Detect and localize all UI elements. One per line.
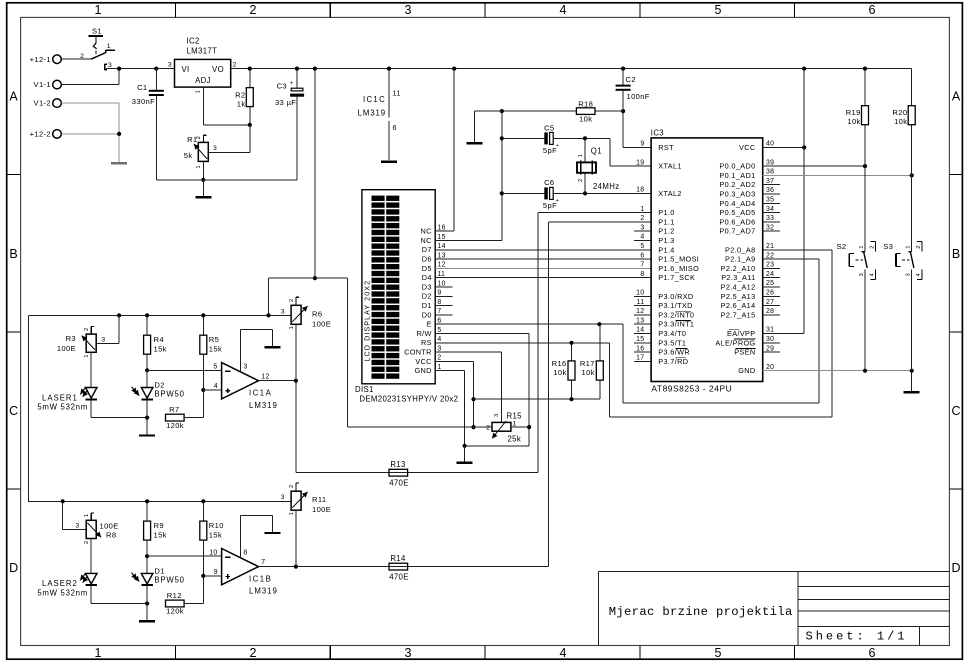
- svg-text:1: 1: [513, 421, 517, 428]
- svg-text:P2.6_A14: P2.6_A14: [721, 301, 756, 310]
- svg-text:GND: GND: [415, 366, 432, 375]
- svg-text:ALE/PROG: ALE/PROG: [715, 338, 755, 347]
- svg-text:32: 32: [766, 224, 774, 231]
- svg-text:E: E: [427, 320, 432, 329]
- svg-text:1: 1: [84, 355, 90, 358]
- svg-text:18: 18: [636, 187, 644, 194]
- svg-text:330nF: 330nF: [132, 97, 155, 106]
- svg-text:10k: 10k: [847, 117, 860, 126]
- svg-text:R2: R2: [235, 91, 245, 100]
- svg-text:LASER1: LASER1: [42, 393, 78, 402]
- svg-text:120k: 120k: [166, 607, 184, 616]
- svg-text:D4: D4: [422, 273, 432, 282]
- svg-text:GND: GND: [738, 366, 755, 375]
- svg-text:34: 34: [766, 206, 774, 213]
- svg-text:39: 39: [766, 159, 774, 166]
- svg-text:RST: RST: [658, 143, 674, 152]
- svg-text:25k: 25k: [508, 435, 522, 444]
- svg-text:7: 7: [261, 559, 265, 566]
- svg-text:P3.5/T1: P3.5/T1: [658, 338, 686, 347]
- svg-text:A: A: [952, 90, 961, 104]
- svg-text:C5: C5: [544, 123, 554, 132]
- svg-text:P1.0: P1.0: [658, 208, 674, 217]
- svg-text:2: 2: [289, 299, 295, 302]
- svg-text:VO: VO: [212, 65, 224, 74]
- svg-text:D1: D1: [422, 301, 432, 310]
- svg-text:15: 15: [437, 234, 445, 241]
- svg-text:EA/VPP: EA/VPP: [727, 329, 755, 338]
- svg-text:LM317T: LM317T: [187, 47, 218, 56]
- svg-text:R17: R17: [580, 359, 595, 368]
- svg-text:35: 35: [766, 197, 774, 204]
- svg-text:BPW50: BPW50: [154, 575, 184, 584]
- svg-text:R5: R5: [209, 335, 219, 344]
- svg-text:2: 2: [289, 485, 295, 488]
- svg-text:P2.0_A8: P2.0_A8: [725, 245, 755, 254]
- svg-text:P0.5_AD5: P0.5_AD5: [719, 208, 755, 217]
- svg-text:P0.3_AD3: P0.3_AD3: [719, 190, 755, 199]
- svg-text:15k: 15k: [154, 344, 167, 353]
- svg-text:IC2: IC2: [187, 37, 200, 46]
- svg-text:3: 3: [405, 3, 412, 17]
- svg-text:IC3: IC3: [651, 129, 664, 138]
- svg-text:15k: 15k: [209, 530, 222, 539]
- svg-text:P1.1: P1.1: [658, 217, 674, 226]
- svg-text:9: 9: [437, 290, 441, 297]
- svg-text:3: 3: [243, 364, 247, 371]
- svg-text:+12-1: +12-1: [30, 55, 51, 64]
- svg-text:Mjerac brzine projektila: Mjerac brzine projektila: [609, 605, 793, 619]
- svg-text:4: 4: [560, 3, 567, 17]
- svg-text:5: 5: [640, 243, 644, 250]
- svg-text:26: 26: [766, 290, 774, 297]
- svg-text:19: 19: [636, 159, 644, 166]
- svg-text:R6: R6: [312, 309, 322, 318]
- svg-text:XTAL2: XTAL2: [658, 189, 682, 198]
- svg-text:9: 9: [640, 141, 644, 148]
- svg-text:S3: S3: [883, 242, 893, 251]
- svg-text:3: 3: [859, 273, 865, 276]
- svg-text:1: 1: [195, 90, 201, 93]
- svg-text:31: 31: [766, 327, 774, 334]
- svg-text:R10: R10: [209, 521, 224, 530]
- svg-text:23: 23: [766, 262, 774, 269]
- svg-text:6: 6: [640, 252, 644, 259]
- svg-text:12: 12: [636, 308, 644, 315]
- svg-text:CONTR: CONTR: [404, 348, 432, 357]
- svg-text:10k: 10k: [894, 117, 907, 126]
- svg-text:2: 2: [84, 328, 90, 331]
- svg-text:P2.4_A12: P2.4_A12: [721, 283, 756, 292]
- svg-text:+12-2: +12-2: [30, 130, 51, 139]
- svg-text:24: 24: [766, 271, 774, 278]
- svg-text:20: 20: [766, 364, 774, 371]
- svg-text:37: 37: [766, 178, 774, 185]
- svg-text:R15: R15: [507, 411, 523, 420]
- svg-text:P1.2: P1.2: [658, 227, 674, 236]
- svg-text:100E: 100E: [100, 522, 119, 531]
- svg-text:40: 40: [766, 141, 774, 148]
- svg-text:P0.4_AD4: P0.4_AD4: [719, 199, 755, 208]
- svg-text:1: 1: [196, 165, 202, 168]
- svg-text:1: 1: [578, 154, 584, 157]
- svg-text:1: 1: [95, 3, 102, 17]
- svg-text:P2.7_A15: P2.7_A15: [721, 310, 756, 319]
- svg-text:R16: R16: [552, 359, 567, 368]
- svg-text:12: 12: [261, 373, 269, 380]
- svg-text:10: 10: [636, 290, 644, 297]
- svg-text:14: 14: [437, 243, 445, 250]
- svg-text:B: B: [9, 247, 17, 261]
- svg-text:P0.6_AD6: P0.6_AD6: [719, 217, 755, 226]
- svg-text:P3.7/RD: P3.7/RD: [658, 357, 688, 366]
- svg-text:D6: D6: [422, 255, 432, 264]
- svg-text:100nF: 100nF: [627, 92, 650, 101]
- svg-text:33 µF: 33 µF: [275, 98, 296, 107]
- svg-text:3: 3: [281, 308, 285, 315]
- svg-text:4: 4: [560, 646, 567, 660]
- svg-text:+: +: [556, 143, 560, 149]
- svg-text:P3.3/INT1: P3.3/INT1: [658, 320, 694, 329]
- svg-text:LCD DISPLAY 20X2: LCD DISPLAY 20X2: [362, 280, 371, 362]
- svg-text:R1: R1: [187, 135, 197, 144]
- svg-text:36: 36: [766, 187, 774, 194]
- svg-text:2: 2: [869, 245, 875, 248]
- svg-text:C2: C2: [626, 75, 636, 84]
- svg-text:7: 7: [437, 308, 441, 315]
- svg-text:3: 3: [213, 145, 217, 152]
- svg-text:NC: NC: [421, 236, 432, 245]
- svg-text:P3.2/INT0: P3.2/INT0: [658, 310, 694, 319]
- svg-text:D1: D1: [154, 566, 164, 575]
- svg-text:100E: 100E: [312, 505, 331, 514]
- svg-text:S1: S1: [92, 27, 102, 36]
- svg-text:5: 5: [715, 646, 722, 660]
- svg-text:5k: 5k: [184, 151, 193, 160]
- svg-text:2: 2: [640, 215, 644, 222]
- svg-text:13: 13: [437, 252, 445, 259]
- svg-text:5: 5: [213, 363, 217, 370]
- svg-text:C1: C1: [137, 83, 147, 92]
- svg-text:100E: 100E: [312, 319, 331, 328]
- svg-text:+: +: [290, 81, 294, 87]
- svg-text:D5: D5: [422, 264, 432, 273]
- svg-text:4: 4: [437, 336, 441, 343]
- svg-text:7: 7: [640, 262, 644, 269]
- svg-text:P0.2_AD2: P0.2_AD2: [719, 180, 755, 189]
- svg-text:PSEN: PSEN: [734, 348, 755, 357]
- svg-text:S2: S2: [837, 242, 847, 251]
- svg-text:ADJ: ADJ: [195, 76, 211, 85]
- svg-text:C: C: [9, 404, 18, 418]
- svg-text:30: 30: [766, 336, 774, 343]
- svg-text:6: 6: [437, 318, 441, 325]
- svg-text:2: 2: [486, 425, 490, 432]
- svg-text:V1-1: V1-1: [34, 80, 51, 89]
- svg-text:P1.3: P1.3: [658, 236, 674, 245]
- svg-text:470E: 470E: [389, 572, 409, 581]
- svg-text:C: C: [951, 404, 960, 418]
- svg-text:C6: C6: [544, 178, 554, 187]
- svg-text:DEM20231SYHPY/V 20x2: DEM20231SYHPY/V 20x2: [359, 395, 458, 404]
- svg-text:AT89S8253 - 24PU: AT89S8253 - 24PU: [651, 383, 732, 393]
- svg-text:15k: 15k: [209, 344, 222, 353]
- svg-text:3: 3: [75, 522, 79, 529]
- svg-text:NC: NC: [421, 227, 432, 236]
- svg-text:10k: 10k: [579, 114, 592, 123]
- svg-text:D: D: [951, 561, 960, 575]
- svg-text:D2: D2: [154, 380, 164, 389]
- svg-text:R18: R18: [578, 99, 593, 108]
- svg-text:LM319: LM319: [249, 587, 278, 596]
- svg-text:8: 8: [640, 271, 644, 278]
- svg-text:1k: 1k: [237, 100, 246, 109]
- svg-text:IC1A: IC1A: [249, 389, 272, 398]
- svg-text:10k: 10k: [553, 368, 566, 377]
- svg-text:IC1B: IC1B: [249, 575, 272, 584]
- svg-text:100E: 100E: [57, 344, 76, 353]
- svg-text:P3.1/TXD: P3.1/TXD: [658, 301, 692, 310]
- svg-text:3: 3: [108, 62, 112, 69]
- svg-text:3: 3: [906, 273, 912, 276]
- svg-text:4: 4: [214, 383, 218, 390]
- svg-text:4: 4: [640, 234, 644, 241]
- svg-text:5: 5: [437, 327, 441, 334]
- svg-text:DIS1: DIS1: [355, 385, 374, 394]
- svg-text:R19: R19: [846, 108, 861, 117]
- svg-text:10: 10: [209, 549, 217, 556]
- svg-text:15: 15: [636, 336, 644, 343]
- svg-text:38: 38: [766, 169, 774, 176]
- svg-text:R3: R3: [66, 334, 76, 343]
- svg-text:P3.6/WR: P3.6/WR: [658, 348, 690, 357]
- svg-text:R12: R12: [167, 591, 182, 600]
- svg-text:33: 33: [766, 215, 774, 222]
- svg-text:Sheet: 1/1: Sheet: 1/1: [806, 630, 908, 644]
- svg-text:XTAL1: XTAL1: [658, 162, 682, 171]
- svg-text:R4: R4: [154, 335, 164, 344]
- svg-text:5: 5: [715, 3, 722, 17]
- svg-text:1: 1: [906, 245, 912, 248]
- svg-text:V1-2: V1-2: [34, 99, 51, 108]
- svg-text:2: 2: [578, 179, 584, 182]
- svg-text:3: 3: [640, 224, 644, 231]
- svg-text:P2.5_A13: P2.5_A13: [721, 292, 756, 301]
- svg-text:P2.3_A11: P2.3_A11: [721, 273, 755, 282]
- svg-text:1: 1: [95, 646, 102, 660]
- svg-text:VI: VI: [182, 65, 190, 74]
- svg-text:R13: R13: [390, 460, 405, 469]
- svg-text:D: D: [9, 561, 18, 575]
- svg-text:3: 3: [281, 494, 285, 501]
- svg-text:D0: D0: [422, 310, 432, 319]
- svg-text:+: +: [556, 198, 560, 204]
- svg-text:16: 16: [437, 225, 445, 232]
- svg-text:10: 10: [437, 280, 445, 287]
- svg-text:1: 1: [289, 326, 295, 329]
- svg-text:28: 28: [766, 308, 774, 315]
- svg-text:D7: D7: [422, 245, 432, 254]
- svg-text:P0.7_AD7: P0.7_AD7: [719, 227, 755, 236]
- svg-text:11: 11: [637, 299, 645, 306]
- svg-text:11: 11: [393, 88, 401, 97]
- svg-text:2: 2: [916, 245, 922, 248]
- svg-text:D3: D3: [422, 282, 432, 291]
- svg-text:17: 17: [636, 355, 644, 362]
- svg-text:8: 8: [243, 550, 247, 557]
- svg-text:R11: R11: [312, 495, 326, 504]
- svg-text:P1.6_MISO: P1.6_MISO: [658, 264, 699, 273]
- svg-text:R/W: R/W: [417, 329, 432, 338]
- svg-text:5mW 532nm: 5mW 532nm: [37, 403, 88, 412]
- svg-text:P0.1_AD1: P0.1_AD1: [719, 171, 755, 180]
- svg-text:3: 3: [101, 336, 105, 343]
- svg-text:9: 9: [214, 569, 218, 576]
- svg-text:BPW50: BPW50: [154, 389, 184, 398]
- svg-text:15k: 15k: [154, 530, 167, 539]
- svg-text:R9: R9: [154, 521, 164, 530]
- svg-text:25: 25: [766, 280, 774, 287]
- svg-text:RS: RS: [421, 338, 432, 347]
- svg-text:2: 2: [233, 62, 237, 69]
- svg-text:14: 14: [636, 327, 644, 334]
- svg-text:24MHz: 24MHz: [593, 182, 619, 191]
- svg-text:6: 6: [869, 3, 876, 17]
- svg-text:22: 22: [766, 252, 774, 259]
- svg-text:12: 12: [437, 262, 445, 269]
- svg-text:2: 2: [84, 541, 90, 544]
- svg-text:6: 6: [393, 123, 397, 132]
- svg-text:3: 3: [437, 345, 441, 352]
- svg-text:C3: C3: [277, 82, 287, 91]
- svg-text:R20: R20: [892, 108, 907, 117]
- svg-text:1: 1: [859, 245, 865, 248]
- svg-text:VCC: VCC: [739, 143, 755, 152]
- svg-text:LASER2: LASER2: [42, 579, 78, 588]
- svg-text:P1.5_MOSI: P1.5_MOSI: [658, 255, 699, 264]
- svg-text:21: 21: [766, 243, 774, 250]
- svg-text:1: 1: [437, 364, 441, 371]
- svg-text:B: B: [952, 247, 960, 261]
- svg-text:R14: R14: [390, 554, 406, 563]
- svg-text:3: 3: [168, 62, 172, 69]
- svg-text:2: 2: [250, 3, 257, 17]
- svg-text:5mW 532nm: 5mW 532nm: [37, 589, 88, 598]
- svg-text:P1.7_SCK: P1.7_SCK: [658, 273, 695, 282]
- svg-text:29: 29: [766, 345, 774, 352]
- svg-text:P2.1_A9: P2.1_A9: [725, 255, 755, 264]
- svg-text:120k: 120k: [166, 421, 184, 430]
- svg-text:P1.4: P1.4: [658, 245, 674, 254]
- svg-text:Q1: Q1: [591, 147, 602, 156]
- svg-text:1: 1: [107, 43, 111, 50]
- svg-text:10k: 10k: [582, 368, 595, 377]
- svg-text:VCC: VCC: [415, 357, 431, 366]
- svg-text:13: 13: [636, 317, 644, 324]
- svg-text:1: 1: [640, 206, 644, 213]
- svg-text:D2: D2: [422, 292, 432, 301]
- svg-text:LM319: LM319: [249, 401, 278, 410]
- svg-text:27: 27: [766, 299, 774, 306]
- svg-text:1: 1: [289, 512, 295, 515]
- svg-text:R8: R8: [106, 531, 116, 540]
- svg-text:3: 3: [494, 414, 500, 417]
- svg-text:A: A: [9, 90, 18, 104]
- svg-text:3: 3: [405, 646, 412, 660]
- svg-text:6: 6: [869, 646, 876, 660]
- svg-text:P2.2_A10: P2.2_A10: [721, 264, 756, 273]
- svg-text:IC1C: IC1C: [363, 95, 386, 104]
- svg-text:2: 2: [437, 355, 441, 362]
- svg-text:470E: 470E: [389, 479, 409, 488]
- svg-text:1: 1: [84, 514, 90, 517]
- svg-text:P3.0/RXD: P3.0/RXD: [658, 292, 693, 301]
- svg-text:LM319: LM319: [358, 108, 386, 117]
- svg-text:P0.0_AD0: P0.0_AD0: [719, 162, 755, 171]
- svg-text:P3.4/T0: P3.4/T0: [658, 329, 686, 338]
- svg-text:8: 8: [437, 299, 441, 306]
- svg-text:16: 16: [636, 345, 644, 352]
- svg-text:R7: R7: [169, 405, 179, 414]
- svg-text:11: 11: [437, 271, 445, 278]
- svg-text:2: 2: [250, 646, 257, 660]
